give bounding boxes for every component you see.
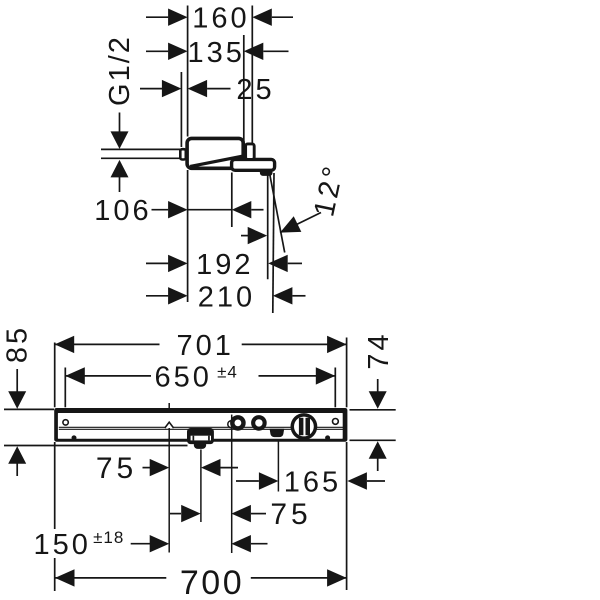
- handle block: [187, 428, 214, 444]
- wire: wall extension line lower: [187, 170, 189, 302]
- dim 85 arrows: [16, 369, 18, 392]
- wire: inlet line inside bar: [231, 415, 233, 441]
- wire: G1/2 bottom extension: [101, 157, 181, 159]
- bar body: [54, 408, 347, 442]
- wire: 701 right extension: [346, 338, 348, 408]
- svg-text:75: 75: [96, 452, 137, 485]
- dim 75 second: [170, 513, 266, 515]
- dim 25: [140, 88, 231, 90]
- svg-text:165: 165: [284, 467, 341, 499]
- svg-text:700: 700: [180, 564, 244, 600]
- dim G1/2 lower arrow: [111, 160, 129, 178]
- wire: 74 top extension: [350, 409, 396, 411]
- handle bump: [194, 441, 206, 449]
- wire: G1/2 top extension: [101, 148, 181, 150]
- dim 160: [146, 16, 293, 18]
- bar inner line 1: [59, 426, 345, 428]
- bar inner line 2: [59, 428, 345, 430]
- dim 165: [236, 480, 385, 482]
- faucet handle diagonal: [190, 156, 243, 167]
- svg-text:701: 701: [177, 330, 234, 362]
- wire: 106 right extension: [231, 173, 233, 228]
- svg-text:±18: ±18: [93, 528, 124, 547]
- wire: 650 left extension: [64, 368, 66, 408]
- svg-text:135: 135: [188, 37, 245, 69]
- svg-text:74: 74: [363, 331, 395, 369]
- bar left screw hole: [63, 420, 68, 425]
- wire: indicator extension line: [168, 403, 170, 553]
- wire: 85 top extension: [4, 408, 54, 410]
- svg-text:210: 210: [198, 281, 255, 313]
- wire: right extension below bar: [346, 442, 348, 590]
- svg-text:106: 106: [94, 195, 151, 227]
- faucet spout: [232, 159, 275, 170]
- svg-text:160: 160: [192, 3, 249, 35]
- dim G1/2 upper arrow: [119, 113, 121, 133]
- faucet cartridge block: [246, 144, 255, 160]
- wire: water stream vertical line: [267, 174, 269, 280]
- wire: 25 left extension: [180, 72, 182, 147]
- wire: indicator line inside bar: [168, 424, 170, 441]
- dim 135: [146, 50, 289, 52]
- faucet body: [187, 138, 243, 168]
- wire: wall extension line upper: [187, 6, 189, 137]
- faucet aerator: [260, 169, 273, 176]
- dim 650 plus tolerance: [65, 375, 335, 377]
- faucet wall tab G1/2 connector: [180, 149, 186, 159]
- wire: 85 bottom extension to handle: [4, 445, 188, 447]
- svg-text:G1/2: G1/2: [104, 35, 136, 106]
- wire: left extension below bar: [54, 442, 56, 529]
- handle slot tick right: [208, 436, 210, 441]
- svg-text:±4: ±4: [217, 362, 238, 381]
- bar left dot: [72, 435, 77, 440]
- wire: 12 degree tilted stream line: [270, 173, 285, 253]
- dim 700: [55, 577, 347, 579]
- handle slot: [191, 436, 211, 441]
- svg-text:650: 650: [155, 361, 212, 393]
- dim 74 arrows: [377, 379, 379, 392]
- bar port ring 1: [230, 415, 246, 431]
- dim 210: [146, 295, 306, 297]
- svg-text:85: 85: [2, 325, 34, 363]
- wire: 701 left extension: [54, 343, 56, 408]
- handle slot tick left: [193, 436, 195, 441]
- wire: 160 right extension: [251, 6, 253, 144]
- thermostat knob: [291, 413, 318, 440]
- bar right screw hole: [333, 419, 339, 425]
- bar spout pill: [270, 429, 285, 437]
- bar indicator caret: [165, 422, 174, 428]
- bar port ring 2: [251, 415, 267, 431]
- wire: 165 left extension line: [277, 430, 279, 492]
- dim 701: [55, 343, 347, 345]
- wire: handle centre line below: [200, 450, 202, 523]
- dim 12 degree angle arrows: [241, 235, 248, 237]
- svg-text:150: 150: [34, 529, 91, 561]
- wire: 135 right extension: [243, 35, 245, 144]
- wire: 650 right extension: [334, 368, 336, 408]
- svg-text:12°: 12°: [308, 161, 350, 219]
- wire: 210 extension line: [273, 173, 274, 313]
- bar right dot: [325, 435, 330, 440]
- svg-text:25: 25: [236, 74, 274, 106]
- wire: 74 bottom extension: [350, 439, 396, 441]
- wire: inlet extension line: [231, 415, 233, 553]
- bar small arc: [228, 421, 235, 428]
- dim 192: [146, 262, 302, 264]
- svg-text:75: 75: [270, 498, 311, 531]
- svg-text:192: 192: [196, 249, 253, 281]
